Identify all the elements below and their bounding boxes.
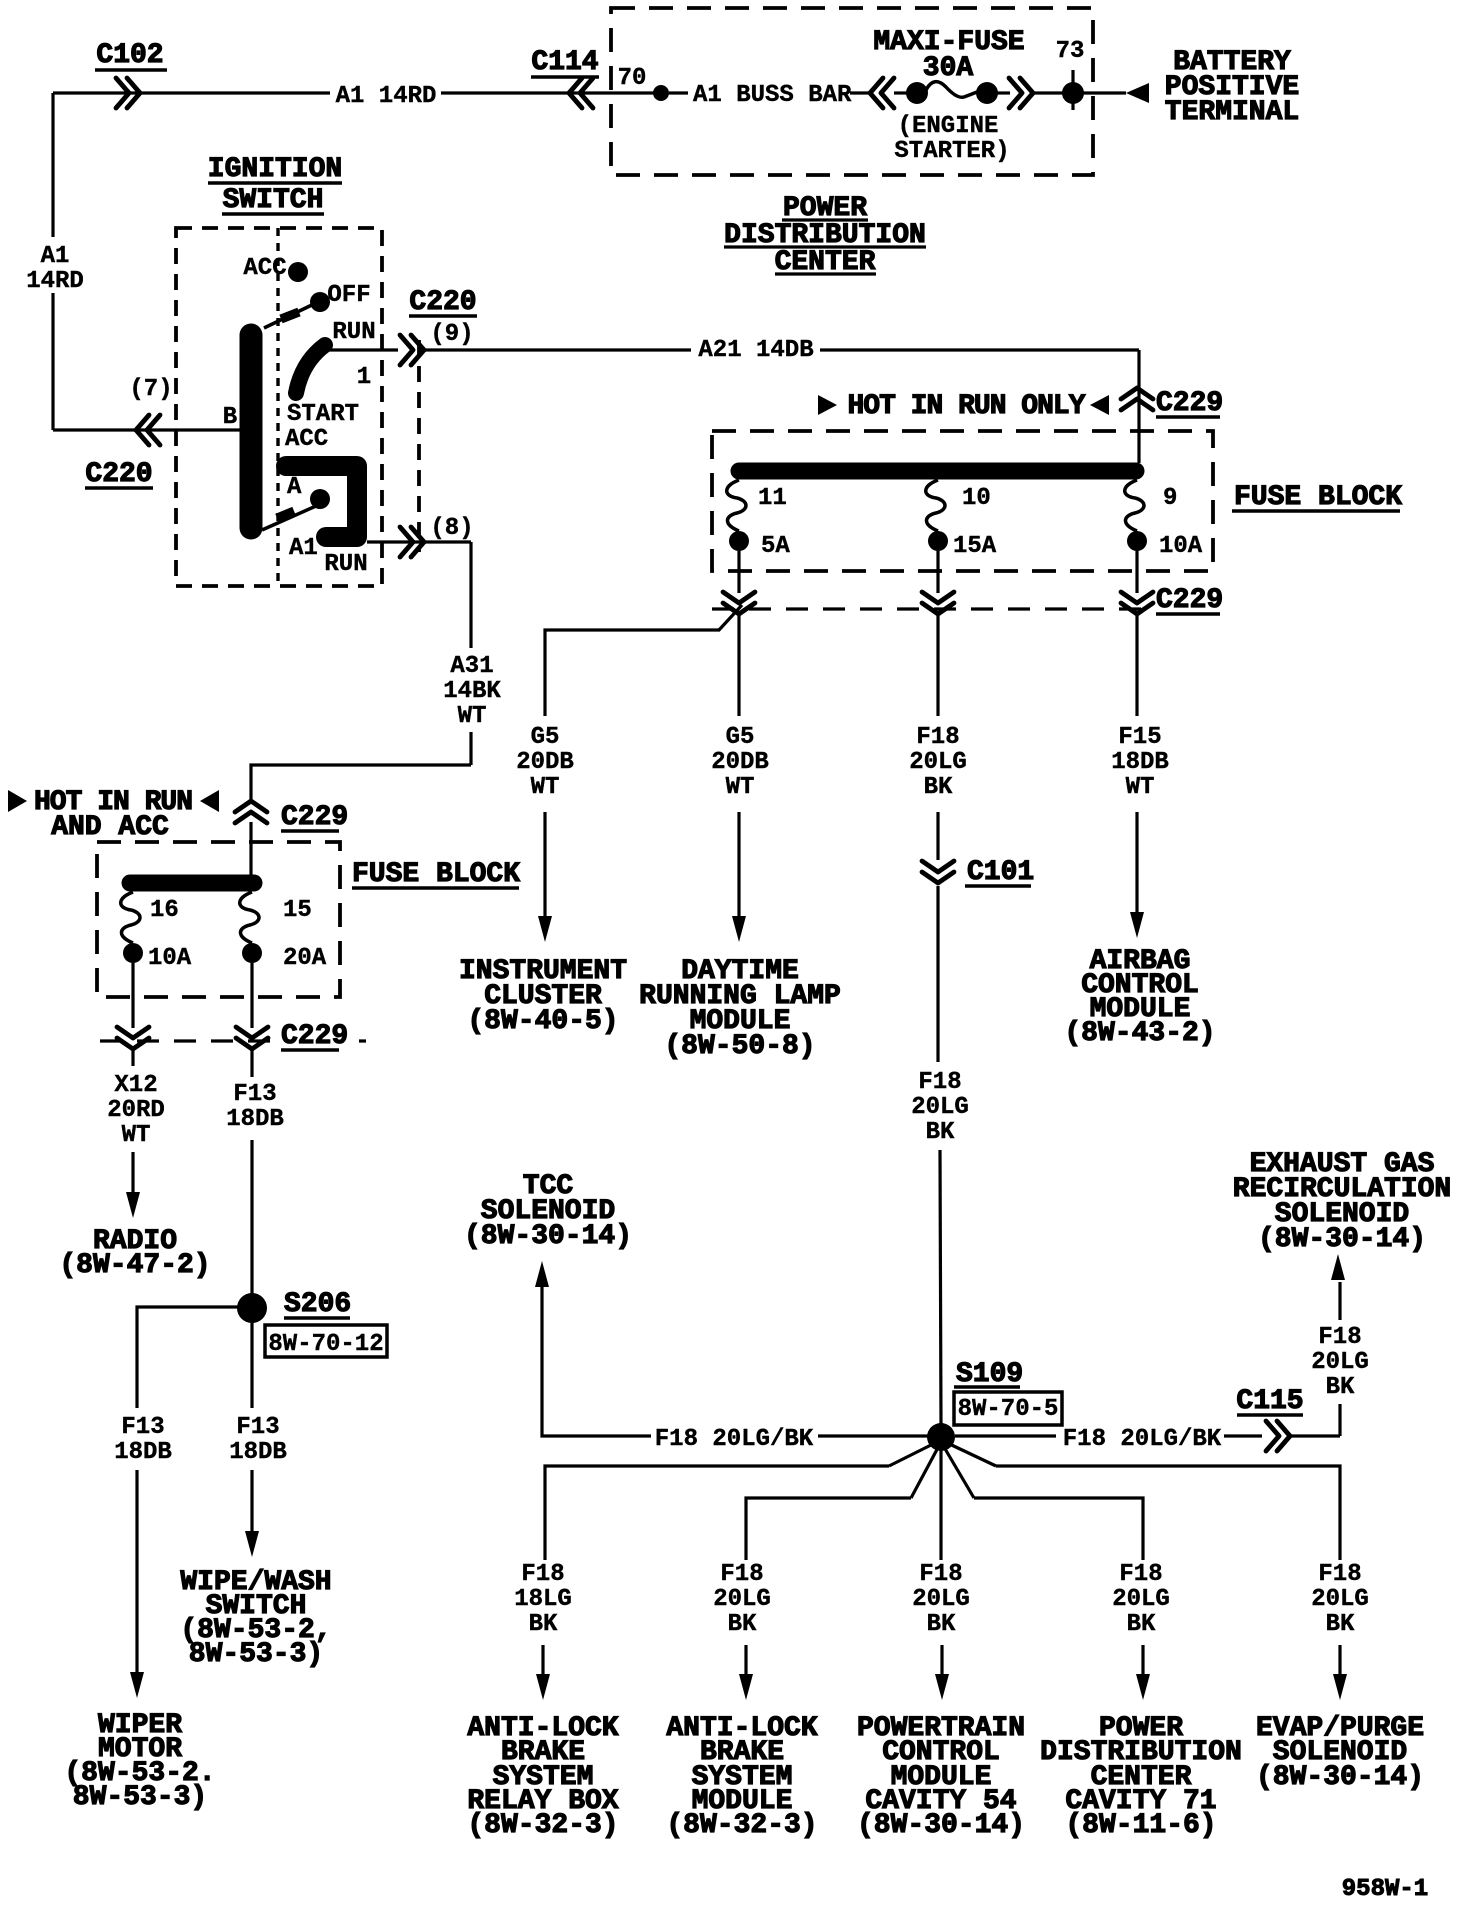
svg-text:A21 14DB: A21 14DB — [698, 337, 813, 364]
svg-text:BK: BK — [728, 1611, 757, 1638]
svg-text:F13: F13 — [121, 1414, 164, 1441]
svg-text:20LG: 20LG — [713, 1586, 771, 1613]
svg-text:C220: C220 — [409, 287, 476, 318]
svg-text:BK: BK — [1127, 1611, 1156, 1638]
svg-text:10A: 10A — [1159, 533, 1203, 560]
svg-text:A1 14RD: A1 14RD — [336, 83, 437, 110]
svg-text:(8W-30-14): (8W-30-14) — [1256, 1762, 1424, 1793]
svg-text:C229: C229 — [1156, 388, 1223, 419]
svg-text:F18: F18 — [720, 1561, 763, 1588]
svg-text:HOT IN RUN ONLY: HOT IN RUN ONLY — [847, 391, 1085, 422]
svg-text:F18: F18 — [918, 1069, 961, 1096]
svg-text:WT: WT — [122, 1122, 151, 1149]
svg-text:STARTER): STARTER) — [894, 138, 1009, 165]
svg-text:1: 1 — [357, 364, 371, 391]
svg-text:X12: X12 — [114, 1072, 157, 1099]
svg-text:F15: F15 — [1118, 724, 1161, 751]
svg-text:F18 20LG/BK: F18 20LG/BK — [1063, 1426, 1222, 1453]
svg-text:20LG: 20LG — [909, 749, 967, 776]
svg-text:A1: A1 — [41, 243, 70, 270]
svg-text:16: 16 — [150, 897, 179, 924]
svg-text:WT: WT — [1126, 774, 1155, 801]
svg-text:C220: C220 — [85, 459, 152, 490]
svg-text:START: START — [287, 401, 359, 428]
svg-text:20RD: 20RD — [107, 1097, 165, 1124]
svg-text:20LG: 20LG — [911, 1094, 969, 1121]
svg-text:AND ACC: AND ACC — [51, 812, 169, 843]
svg-text:20LG: 20LG — [1311, 1349, 1369, 1376]
svg-text:RUN: RUN — [332, 319, 375, 346]
svg-text:10A: 10A — [148, 945, 192, 972]
svg-text:A31: A31 — [450, 653, 493, 680]
svg-text:BK: BK — [926, 1119, 955, 1146]
svg-text:C229: C229 — [1156, 585, 1223, 616]
svg-text:(9): (9) — [430, 321, 473, 348]
svg-text:C114: C114 — [531, 47, 598, 78]
svg-text:(ENGINE: (ENGINE — [898, 113, 999, 140]
svg-text:(8W-50-8): (8W-50-8) — [664, 1031, 815, 1062]
svg-text:(8W-30-14): (8W-30-14) — [1258, 1224, 1426, 1255]
svg-text:30A: 30A — [923, 53, 974, 84]
svg-text:8W-70-12: 8W-70-12 — [268, 1331, 383, 1358]
svg-text:ACC: ACC — [285, 426, 328, 453]
svg-text:8W-53-3): 8W-53-3) — [73, 1782, 207, 1813]
svg-text:WT: WT — [531, 774, 560, 801]
svg-text:FUSE BLOCK: FUSE BLOCK — [352, 859, 520, 890]
svg-text:8W-53-3): 8W-53-3) — [189, 1639, 323, 1670]
svg-text:F18: F18 — [916, 724, 959, 751]
svg-text:F18: F18 — [1318, 1561, 1361, 1588]
svg-text:ACC: ACC — [243, 255, 286, 282]
svg-text:20LG: 20LG — [1112, 1586, 1170, 1613]
svg-text:WT: WT — [726, 774, 755, 801]
svg-text:18DB: 18DB — [226, 1106, 284, 1133]
svg-text:73: 73 — [1056, 38, 1085, 65]
svg-text:18DB: 18DB — [1111, 749, 1169, 776]
svg-text:BK: BK — [924, 774, 953, 801]
svg-text:11: 11 — [758, 485, 787, 512]
svg-text:(8W-43-2): (8W-43-2) — [1064, 1018, 1215, 1049]
svg-text:14RD: 14RD — [26, 268, 84, 295]
svg-text:S206: S206 — [284, 1289, 351, 1320]
svg-text:958W-1: 958W-1 — [1342, 1876, 1428, 1903]
svg-text:18LG: 18LG — [514, 1586, 572, 1613]
svg-text:G5: G5 — [531, 724, 560, 751]
svg-text:TERMINAL: TERMINAL — [1165, 97, 1299, 128]
svg-text:(8W-32-3): (8W-32-3) — [666, 1810, 817, 1841]
svg-text:F18 20LG/BK: F18 20LG/BK — [655, 1426, 814, 1453]
svg-text:8W-70-5: 8W-70-5 — [958, 1396, 1059, 1423]
svg-text:A1: A1 — [289, 535, 318, 562]
svg-text:A: A — [287, 474, 302, 501]
svg-text:BK: BK — [1326, 1374, 1355, 1401]
svg-text:15A: 15A — [953, 533, 997, 560]
svg-text:(7): (7) — [129, 376, 172, 403]
svg-text:F18: F18 — [521, 1561, 564, 1588]
svg-text:20LG: 20LG — [912, 1586, 970, 1613]
svg-text:C102: C102 — [96, 40, 163, 71]
svg-text:(8W-11-6): (8W-11-6) — [1065, 1810, 1216, 1841]
svg-text:(8W-30-14): (8W-30-14) — [857, 1810, 1025, 1841]
svg-text:C101: C101 — [967, 857, 1034, 888]
svg-text:C115: C115 — [1236, 1386, 1303, 1417]
svg-text:14BK: 14BK — [443, 678, 501, 705]
svg-text:WT: WT — [458, 703, 487, 730]
svg-text:G5: G5 — [726, 724, 755, 751]
svg-text:F18: F18 — [1318, 1324, 1361, 1351]
svg-text:SWITCH: SWITCH — [223, 185, 324, 216]
svg-text:(8W-32-3): (8W-32-3) — [467, 1810, 618, 1841]
svg-text:20LG: 20LG — [1311, 1586, 1369, 1613]
svg-text:15: 15 — [283, 897, 312, 924]
svg-text:18DB: 18DB — [114, 1439, 172, 1466]
svg-text:20DB: 20DB — [516, 749, 574, 776]
svg-text:OFF: OFF — [327, 282, 370, 309]
svg-text:IGNITION: IGNITION — [208, 154, 342, 185]
svg-text:5A: 5A — [761, 533, 790, 560]
svg-text:F18: F18 — [919, 1561, 962, 1588]
svg-text:C229: C229 — [281, 802, 348, 833]
svg-text:70: 70 — [618, 65, 647, 92]
svg-text:BK: BK — [529, 1611, 558, 1638]
svg-text:(8): (8) — [430, 515, 473, 542]
svg-text:BK: BK — [927, 1611, 956, 1638]
svg-text:20A: 20A — [283, 945, 327, 972]
svg-text:(8W-30-14): (8W-30-14) — [464, 1221, 632, 1252]
svg-text:B: B — [223, 404, 237, 431]
svg-text:F18: F18 — [1119, 1561, 1162, 1588]
svg-text:20DB: 20DB — [711, 749, 769, 776]
svg-text:A1 BUSS BAR: A1 BUSS BAR — [693, 82, 852, 109]
svg-text:(8W-47-2): (8W-47-2) — [59, 1250, 210, 1281]
svg-text:18DB: 18DB — [229, 1439, 287, 1466]
svg-text:10: 10 — [962, 485, 991, 512]
svg-text:C229: C229 — [281, 1021, 348, 1052]
svg-text:F13: F13 — [236, 1414, 279, 1441]
svg-text:RUN: RUN — [324, 551, 367, 578]
svg-text:F13: F13 — [233, 1081, 276, 1108]
svg-text:9: 9 — [1163, 485, 1177, 512]
svg-text:BK: BK — [1326, 1611, 1355, 1638]
svg-text:(8W-40-5): (8W-40-5) — [467, 1006, 618, 1037]
svg-text:FUSE BLOCK: FUSE BLOCK — [1234, 482, 1402, 513]
